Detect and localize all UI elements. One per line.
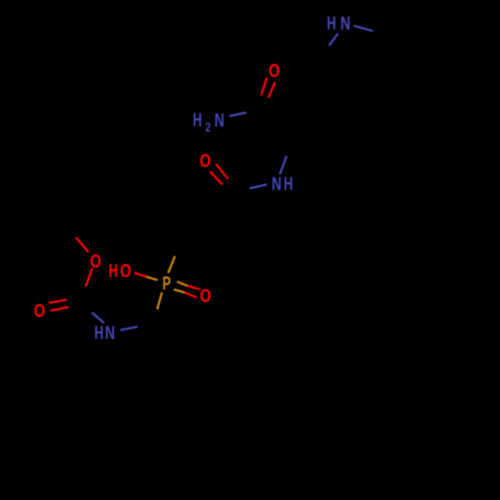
svg-text:2: 2: [205, 121, 211, 134]
svg-text:O: O: [269, 62, 280, 82]
bond indole N1-C2 (blue half): [354, 26, 373, 31]
svg-text:H: H: [327, 14, 336, 34]
svg-text:H: H: [193, 111, 202, 131]
svg-text:H: H: [109, 262, 118, 282]
bond NH-Calpha (blue half): [280, 156, 287, 175]
bond H2N-C1 (blue half): [230, 113, 247, 116]
bond O4-CH3 (red half): [76, 237, 89, 252]
double bond C3=O5 line a (red half): [49, 300, 67, 303]
bond NH-C2carbonyl (blue half): [250, 185, 268, 189]
svg-text:O: O: [34, 302, 45, 322]
double bond P=O3 line b gold part: [174, 289, 185, 292]
double bond C1=O1 line b (red half): [268, 82, 275, 98]
svg-text:N: N: [105, 323, 115, 343]
bond carbamate N-C3 (blue half): [92, 313, 104, 324]
carbamate N label HN: [94, 323, 115, 343]
double bond C2=O2 line b (red half): [210, 171, 223, 184]
bond P-CH down (gold half): [157, 292, 162, 309]
svg-text:H: H: [94, 324, 103, 344]
double bond C3=O5 line b (red half): [50, 307, 68, 311]
hydroxyl label HO: [109, 262, 132, 282]
indole N1 label HN: [327, 14, 350, 34]
double bond P=O3 line b red part: [185, 293, 197, 298]
svg-text:N: N: [272, 174, 282, 194]
double bond C2=O2 line a (red half): [216, 164, 228, 179]
svg-text:P: P: [162, 275, 170, 295]
double bond P=O3 line a gold part: [177, 282, 187, 286]
bond carbamate N-CH (blue half): [120, 327, 137, 330]
svg-text:O: O: [120, 262, 131, 282]
bond O4-C3 (red half): [86, 268, 92, 286]
bond HO-P gold half: [147, 277, 158, 280]
svg-text:N: N: [340, 14, 350, 34]
double bond C1=O1 line a (red half): [261, 78, 267, 96]
amide N label H2N: [193, 111, 225, 135]
bond HO-P red half: [134, 273, 146, 277]
svg-text:H: H: [284, 175, 293, 195]
double bond P=O3 line a red part: [187, 286, 200, 290]
svg-text:O: O: [200, 152, 211, 172]
bond P-CH2 up (gold half): [168, 256, 175, 273]
backbone amide NH label: [272, 174, 293, 194]
svg-text:N: N: [214, 111, 224, 131]
svg-text:O: O: [200, 287, 211, 307]
bond indole N1-C7a (blue half): [329, 34, 338, 46]
